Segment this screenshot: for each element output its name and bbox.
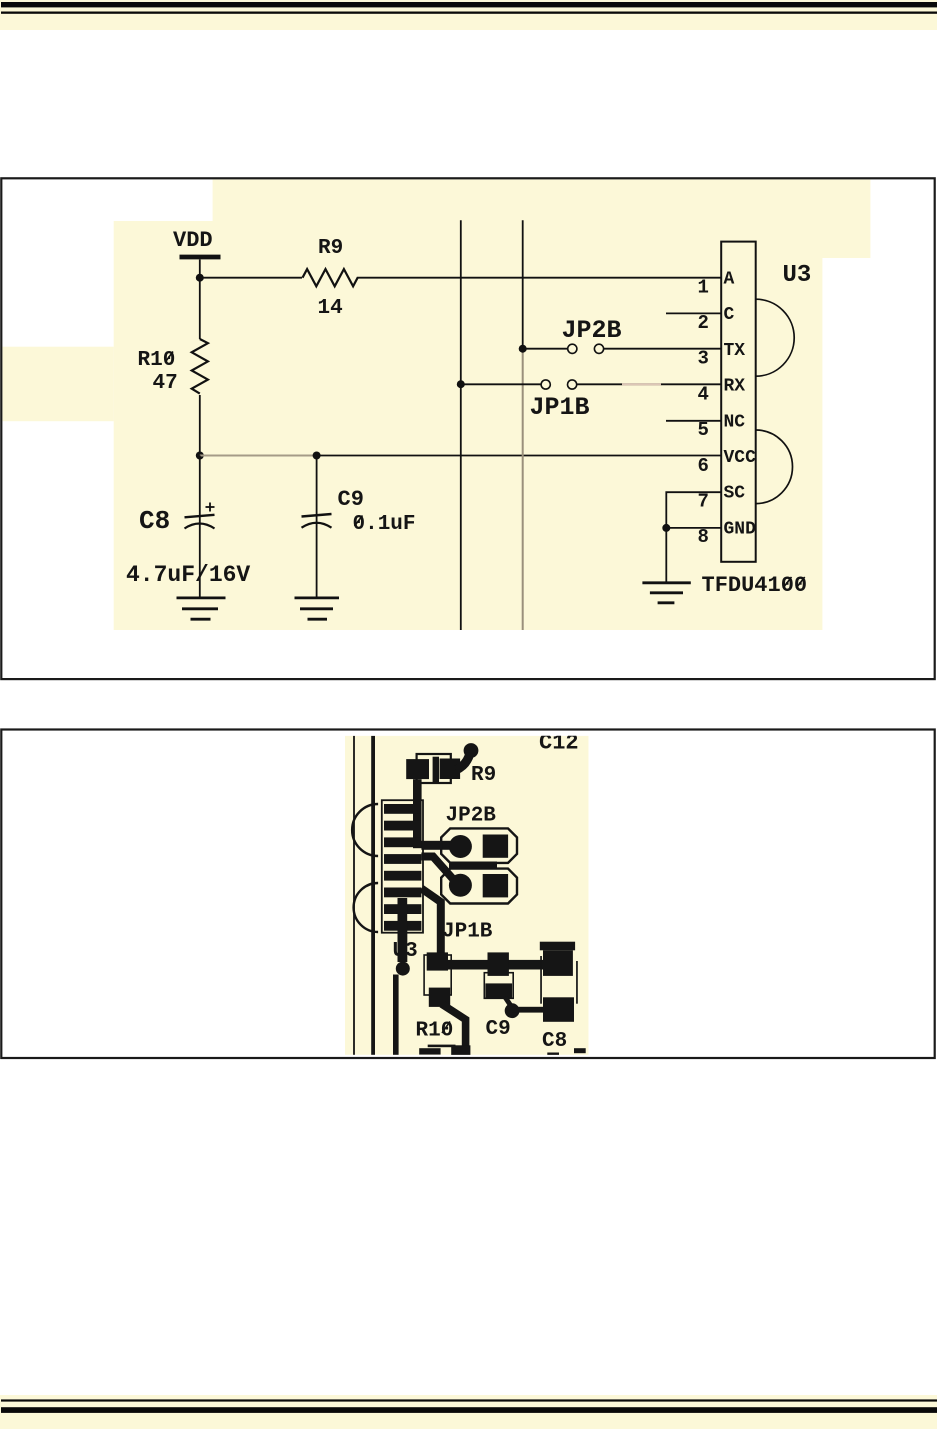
wire node to R10 xyxy=(199,278,201,339)
pcb R10 bottom pad xyxy=(429,988,450,1007)
pcb U3 pad bar 6 xyxy=(384,888,421,898)
pcb U3 lens arc upper xyxy=(352,804,378,856)
pcb jumper JP2B upper housing xyxy=(441,828,517,863)
jumper JP1B xyxy=(530,380,590,422)
footer thick rule xyxy=(1,1407,937,1413)
pcb U3 lens arc lower xyxy=(354,883,379,932)
svg-text:RX: RX xyxy=(724,377,746,397)
header thin rule xyxy=(1,12,937,14)
pcb partial footprint bottom left thin bar xyxy=(428,1045,456,1048)
wire C8 to ground xyxy=(199,528,201,597)
svg-text:5: 5 xyxy=(698,419,709,441)
pcb trace R9 pad down to U3 xyxy=(413,779,422,848)
pcb capacitor C9 outline xyxy=(484,973,513,999)
pcb via dot near C9 xyxy=(505,1003,520,1018)
pcb label R10 xyxy=(416,1020,454,1043)
pcb C8 top pad xyxy=(543,950,573,976)
U3 lens arc lower xyxy=(756,430,793,504)
IC U3 body xyxy=(721,242,756,562)
svg-text:C9: C9 xyxy=(338,487,364,512)
svg-text:C8: C8 xyxy=(542,1030,567,1053)
pcb trace thick vertical xyxy=(371,736,375,1055)
svg-text:R10: R10 xyxy=(416,1020,454,1043)
wire jumper to pin 3 xyxy=(604,348,721,350)
resistor R9 xyxy=(303,237,359,286)
wire C9 to ground xyxy=(316,527,318,597)
pcb trace bottom foot xyxy=(451,1045,470,1055)
pcb U3 pad bar 3 xyxy=(384,837,421,847)
jumper JP2B xyxy=(562,316,622,353)
pcb U3 pad bar 7 xyxy=(384,904,421,914)
wire R9 to pin 1 xyxy=(358,277,721,279)
wire node to R9 xyxy=(200,277,302,279)
pcb trace U3 to JP2B lower xyxy=(421,857,453,880)
pcb scan background xyxy=(345,736,589,1055)
pcb JP2B lower round pad xyxy=(449,874,472,897)
pcb resistor R9 outline xyxy=(417,754,451,783)
resistor R10 xyxy=(138,339,208,394)
pcb jumper JP2B lower housing xyxy=(441,869,517,904)
pcb via dot near U3 xyxy=(396,962,410,976)
pcb figure border xyxy=(1,730,934,1059)
pcb trace R10 to C9 to C8 xyxy=(448,960,549,970)
pcb JP2B housings joining bar xyxy=(449,862,497,870)
pcb partial via bottom under C8 xyxy=(547,1053,559,1056)
wire VDD to node xyxy=(199,260,201,278)
svg-text:8: 8 xyxy=(698,526,709,548)
ground under C9 xyxy=(295,598,340,619)
header band background xyxy=(0,0,937,30)
svg-text:NC: NC xyxy=(724,412,746,432)
pcb R9 center bar xyxy=(433,757,439,782)
svg-text:R9: R9 xyxy=(471,764,496,787)
pcb C9 bottom pad xyxy=(485,983,512,998)
pcb trace thin vertical xyxy=(353,736,355,1055)
pcb R10 top pad xyxy=(427,952,448,970)
ground under U3 xyxy=(642,583,690,603)
footer thin rule xyxy=(1,1399,937,1401)
svg-text:14: 14 xyxy=(318,297,343,320)
bus wire vertical 2 upper xyxy=(522,220,524,348)
pcb trace R10 pad down xyxy=(442,1004,466,1054)
pcb U3 pad bar 4 xyxy=(384,854,421,864)
svg-text:JP2B: JP2B xyxy=(446,805,497,828)
svg-text:47: 47 xyxy=(153,372,178,395)
junction node VCC/C9 xyxy=(313,452,321,460)
pcb C8 outline right xyxy=(576,961,578,1004)
pcb resistor R10 outline xyxy=(424,955,451,995)
pcb U3 pad bar 8 xyxy=(384,921,421,931)
junction node RX xyxy=(457,380,465,388)
pcb trace via down xyxy=(393,975,399,1055)
header thick rule xyxy=(1,2,937,7)
pcb trace U3 pin to via xyxy=(398,898,408,962)
pcb trace over label xyxy=(398,930,408,962)
pcb JP2B lower square pad xyxy=(483,874,508,897)
bus wire vertical 1 xyxy=(460,220,462,630)
footer band background xyxy=(0,1395,937,1429)
value 0.1uF of C9 xyxy=(353,513,416,536)
faded segment on RX wire xyxy=(622,383,661,385)
svg-text:TFDU4100: TFDU4100 xyxy=(702,573,808,598)
pcb R9 right pad xyxy=(440,759,461,780)
svg-text:JP2B: JP2B xyxy=(562,316,622,345)
junction node VCC/C8 xyxy=(196,452,204,460)
svg-text:A: A xyxy=(724,270,735,290)
pcb C9 top pad xyxy=(488,952,509,976)
svg-text:C9: C9 xyxy=(486,1018,511,1041)
svg-text:C: C xyxy=(724,305,735,325)
wire VCC gray segment xyxy=(200,455,317,457)
pcb U3 pad bar 1 xyxy=(384,804,421,814)
capacitor C9 xyxy=(302,487,364,528)
stub wire pin 5 xyxy=(666,420,721,422)
svg-text:3: 3 xyxy=(698,348,709,370)
svg-text:C8: C8 xyxy=(139,506,170,536)
wire GND node to ground xyxy=(665,528,667,582)
svg-text:R10: R10 xyxy=(138,349,176,372)
pcb trace U3 to JP2B upper xyxy=(421,841,459,850)
U3 lens arc upper xyxy=(756,299,795,376)
pcb trace via to C8 xyxy=(512,1007,543,1013)
wire R10 to VCC node xyxy=(199,395,201,456)
ground under C8 xyxy=(177,598,226,619)
pcb U3 pad bar 5 xyxy=(384,871,421,881)
pcb JP2B upper square pad xyxy=(483,835,508,858)
wire jumper to pin 4 xyxy=(577,383,721,385)
capacitor C8 xyxy=(139,503,215,537)
pcb via dot near R9 xyxy=(464,743,479,758)
svg-text:VCC: VCC xyxy=(724,448,757,468)
svg-text:1: 1 xyxy=(698,276,709,298)
pcb JP2B upper round pad xyxy=(449,835,472,858)
pcb C8 bottom pad xyxy=(543,997,574,1022)
wire VCC node to pin 6 xyxy=(317,455,722,457)
pcb C8 outline left xyxy=(540,956,542,1004)
schematic scan background left strip xyxy=(3,347,114,422)
wire node to C8 xyxy=(199,456,201,529)
schematic figure border xyxy=(1,178,934,679)
svg-text:JP1B: JP1B xyxy=(442,921,493,944)
pcb capacitor C8 top bar xyxy=(540,942,575,951)
svg-text:SC: SC xyxy=(724,484,746,504)
junction node TX xyxy=(519,345,527,353)
pcb partial footprint bottom left pad xyxy=(419,1048,440,1054)
power symbol VDD xyxy=(173,228,221,257)
svg-text:VDD: VDD xyxy=(173,228,213,253)
svg-text:GND: GND xyxy=(724,519,757,539)
pcb R9 left pad xyxy=(406,759,429,779)
svg-text:U3: U3 xyxy=(783,262,812,289)
part number TFDU4100 xyxy=(702,573,808,598)
svg-text:JP1B: JP1B xyxy=(530,393,590,422)
junction node GND xyxy=(662,524,670,532)
pcb trace via to R9 pad xyxy=(456,753,470,770)
svg-text:6: 6 xyxy=(698,455,709,477)
svg-text:C12: C12 xyxy=(539,731,579,756)
wire TX node to jumper xyxy=(523,348,568,350)
schematic scan background main xyxy=(114,221,823,630)
pcb partial pad bottom right xyxy=(574,1048,586,1053)
bus wire vertical 2 lower gray xyxy=(522,349,524,630)
svg-text:TX: TX xyxy=(724,341,746,361)
svg-text:4: 4 xyxy=(698,383,709,405)
schematic scan background top band xyxy=(213,180,871,259)
pcb U3 footprint outline xyxy=(382,800,423,933)
svg-text:4.7uF/16V: 4.7uF/16V xyxy=(126,562,250,588)
svg-text:7: 7 xyxy=(698,491,709,513)
svg-text:2: 2 xyxy=(698,312,709,334)
wire pin 7 SC xyxy=(666,492,721,528)
svg-text:R9: R9 xyxy=(318,237,343,260)
wire pin 8 GND xyxy=(666,527,721,529)
wire RX node to jumper xyxy=(461,383,541,385)
pcb U3 pad bar 2 xyxy=(384,821,421,831)
pcb trace C9 pad to via xyxy=(505,997,511,1006)
stub wire pin 2 xyxy=(666,312,721,314)
wire node to C9 xyxy=(316,456,318,528)
pcb trace U3 down to R10 xyxy=(421,889,440,955)
junction node VDD/R9/R10 xyxy=(196,274,204,282)
